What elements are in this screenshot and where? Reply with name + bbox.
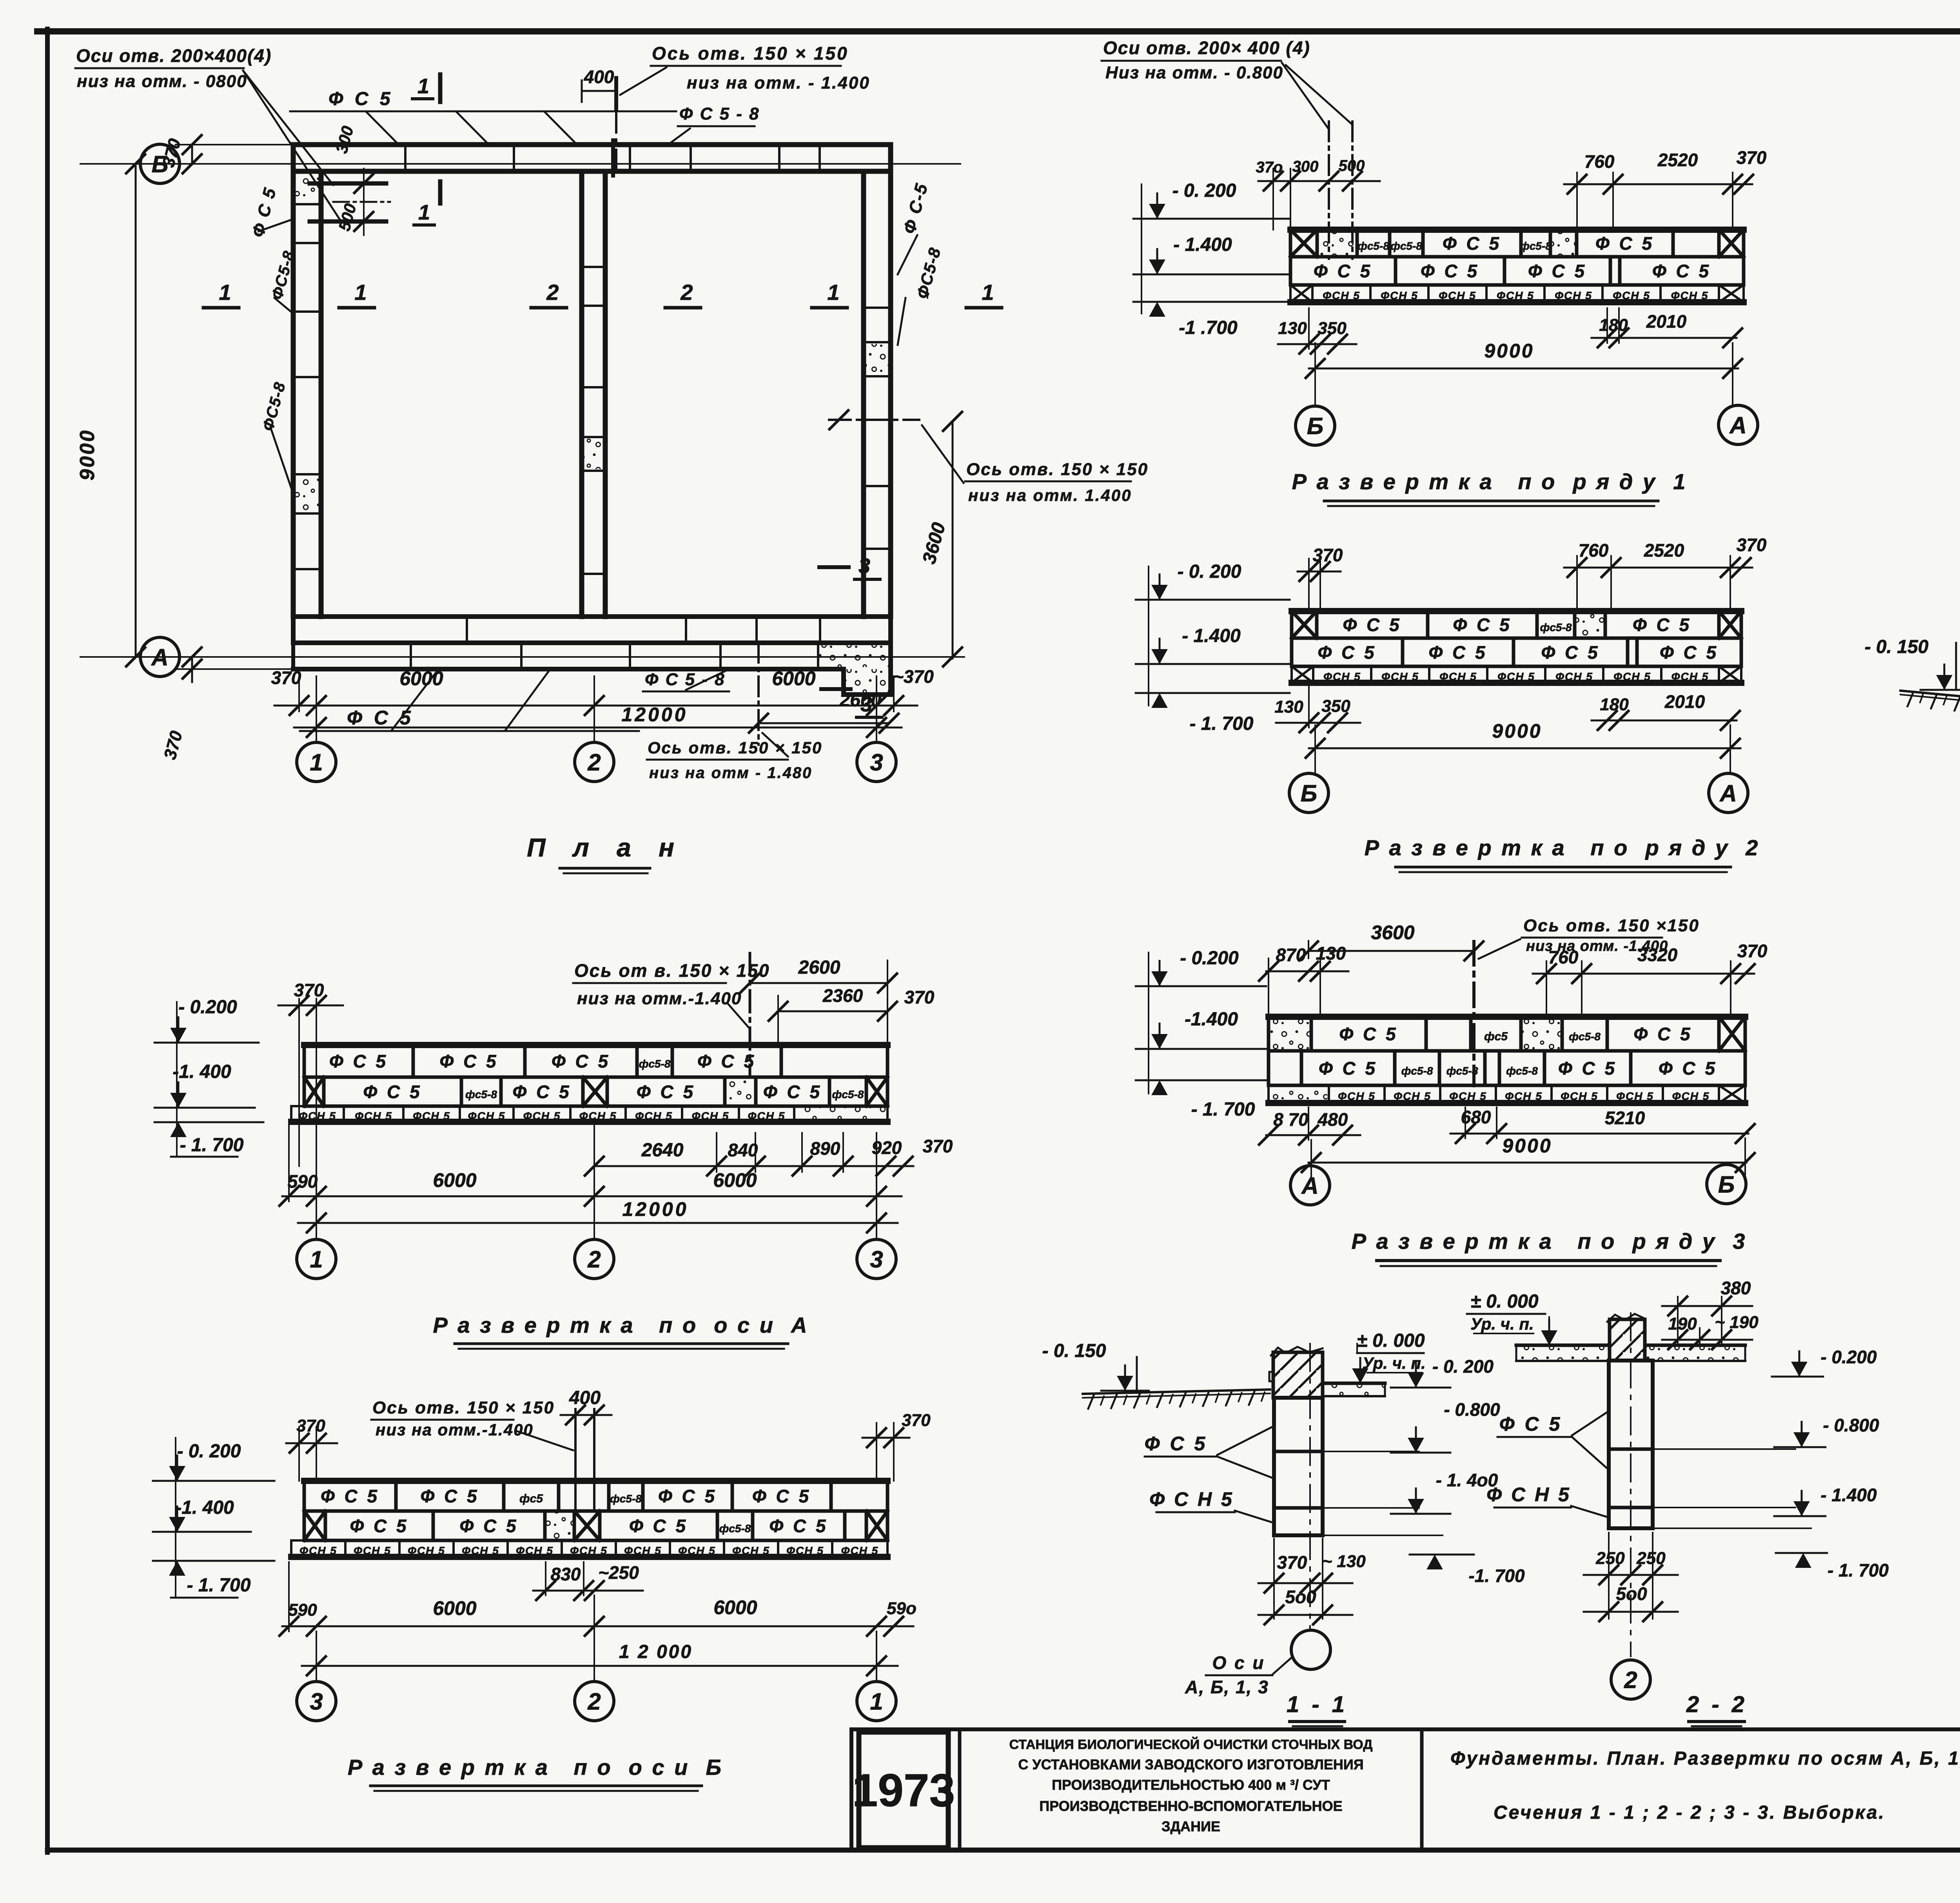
section 1-1 level -0.150 bbox=[1042, 1341, 1160, 1391]
svg-text:низ на отм.-1.400: низ на отм.-1.400 bbox=[577, 989, 742, 1008]
section 2-2 axis dash line bbox=[1630, 1313, 1632, 1656]
svg-text:3: 3 bbox=[310, 1689, 323, 1715]
svg-text:Р а з в е р т к а п о р я д: Р а з в е р т к а п о р я д у 2 bbox=[1365, 835, 1760, 860]
svg-text:370: 370 bbox=[1737, 535, 1767, 555]
svg-text:- 1.400: - 1.400 bbox=[1182, 626, 1241, 646]
svg-text:3600: 3600 bbox=[919, 520, 950, 566]
svg-text:180: 180 bbox=[1600, 695, 1629, 714]
svg-text:Ф С 5: Ф С 5 bbox=[248, 185, 280, 239]
svg-text:Ф С 5: Ф С 5 bbox=[439, 1051, 498, 1072]
svg-text:Б: Б bbox=[1307, 413, 1323, 439]
svg-text:А: А bbox=[151, 644, 168, 671]
elevation ryad 1 strip bbox=[1290, 230, 1744, 302]
section 2-2 wall bbox=[1607, 1314, 1645, 1361]
svg-text:Ф С 5: Ф С 5 bbox=[1319, 1058, 1377, 1079]
svg-text:Ось отв. 150 × 150: Ось отв. 150 × 150 bbox=[372, 1398, 555, 1417]
section 3-3 level -0.150 bbox=[1863, 637, 1960, 690]
svg-text:- 0.200: - 0.200 bbox=[178, 997, 237, 1018]
section 2-2 axis bubble bbox=[1611, 1660, 1650, 1699]
svg-text:Ф С 5: Ф С 5 bbox=[1659, 1058, 1717, 1079]
elevation ryad 3 axis bubbles bbox=[1290, 1165, 1746, 1205]
svg-text:2010: 2010 bbox=[1664, 691, 1705, 712]
svg-text:1: 1 bbox=[417, 74, 429, 98]
svg-text:3: 3 bbox=[858, 554, 870, 578]
svg-text:Ур. ч. п.: Ур. ч. п. bbox=[1470, 1315, 1534, 1333]
svg-text:760: 760 bbox=[1584, 151, 1615, 172]
svg-text:760: 760 bbox=[1548, 947, 1579, 967]
plan opening axis 400 at axis2 bbox=[582, 67, 616, 176]
svg-text:Р а з в е р т к а п о о с и: Р а з в е р т к а п о о с и А bbox=[433, 1313, 809, 1337]
svg-text:Б: Б bbox=[1718, 1172, 1735, 1198]
svg-text:760: 760 bbox=[1579, 540, 1609, 561]
svg-text:2: 2 bbox=[587, 749, 601, 776]
section 2-2 title bbox=[1686, 1692, 1748, 1726]
svg-text:ПРОИЗВОДСТВЕННО-ВСПОМОГАТЕЛЬНО: ПРОИЗВОДСТВЕННО-ВСПОМОГАТЕЛЬНОЕ bbox=[1039, 1798, 1342, 1814]
section 2-2 label FSN5 bbox=[1486, 1484, 1610, 1518]
elevation ryad 3 levels bbox=[1136, 948, 1266, 1120]
elevation ryad 3 strip bbox=[1269, 1017, 1745, 1103]
svg-text:Ф С 5: Ф С 5 bbox=[1314, 261, 1372, 281]
elevation osi A title bbox=[433, 1313, 809, 1349]
elevation osi A dim 370 left bbox=[278, 980, 343, 1166]
svg-text:фс5-8: фс5-8 bbox=[1520, 240, 1552, 252]
svg-text:3: 3 bbox=[870, 749, 883, 776]
svg-text:370: 370 bbox=[1737, 941, 1768, 961]
svg-text:Ф С 5: Ф С 5 bbox=[1421, 261, 1479, 281]
svg-text:Ф С 5: Ф С 5 bbox=[1652, 261, 1711, 281]
svg-text:2: 2 bbox=[546, 280, 559, 305]
svg-text:А: А bbox=[1301, 1173, 1318, 1199]
svg-text:Ось отв. 150 ×150: Ось отв. 150 ×150 bbox=[1523, 916, 1700, 935]
svg-text:низ на отм - 1.480: низ на отм - 1.480 bbox=[649, 764, 812, 782]
svg-text:12000: 12000 bbox=[621, 704, 688, 726]
svg-text:СТАНЦИЯ БИОЛОГИЧЕСКОЙ ОЧИСТКИ: СТАНЦИЯ БИОЛОГИЧЕСКОЙ ОЧИСТКИ СТОЧНЫХ ВО… bbox=[1009, 1737, 1372, 1752]
svg-text:Ф С 5: Ф С 5 bbox=[763, 1082, 822, 1102]
svg-text:Сечения 1 - 1 ; 2 - 2 ;: Сечения 1 - 1 ; 2 - 2 ; 3 - 3. Выборка. bbox=[1494, 1802, 1886, 1823]
svg-text:фс5-8: фс5-8 bbox=[1401, 1065, 1433, 1077]
svg-text:1 2 000: 1 2 000 bbox=[619, 1642, 693, 1662]
svg-text:- 1. 700: - 1. 700 bbox=[1191, 1099, 1255, 1120]
svg-text:фс5-8: фс5-8 bbox=[719, 1522, 751, 1535]
svg-text:1: 1 bbox=[219, 280, 231, 305]
svg-text:ПРОИЗВОДИТЕЛЬНОСТЬЮ 400 м ³/ С: ПРОИЗВОДИТЕЛЬНОСТЬЮ 400 м ³/ СУТ bbox=[1052, 1777, 1330, 1793]
plan axis bubbles 1 2 3 bbox=[297, 742, 896, 782]
svg-text:5о0: 5о0 bbox=[1616, 1584, 1647, 1604]
elevation ryad 3 dim 3600 and otv axis bbox=[1299, 922, 1483, 1086]
plan axis bubble B bbox=[140, 144, 180, 183]
svg-text:Ф С 5: Ф С 5 bbox=[347, 707, 414, 729]
svg-text:6000: 6000 bbox=[433, 1169, 476, 1191]
svg-text:Ось от в. 150 × 150: Ось от в. 150 × 150 bbox=[574, 960, 770, 981]
svg-text:9000: 9000 bbox=[76, 429, 99, 481]
svg-text:59о: 59о bbox=[887, 1599, 916, 1618]
svg-text:-1. 400: -1. 400 bbox=[175, 1497, 234, 1518]
svg-text:- 0.200: - 0.200 bbox=[1820, 1347, 1877, 1367]
elevation osi B title bbox=[348, 1755, 723, 1791]
svg-text:2600: 2600 bbox=[798, 957, 840, 978]
svg-text:Ось отв. 150 × 150: Ось отв. 150 × 150 bbox=[648, 738, 822, 757]
elevation osi A axis bubbles bbox=[297, 1239, 896, 1279]
elevation ryad 1 axis bubbles bbox=[1296, 405, 1758, 445]
elevation osi A dim 590 6000 6000 bbox=[279, 1125, 902, 1206]
section 1-1 dims below bbox=[1258, 1538, 1366, 1624]
svg-text:Ф С 5: Ф С 5 bbox=[769, 1516, 828, 1536]
svg-text:Б: Б bbox=[1301, 780, 1317, 807]
svg-text:- 1. 700: - 1. 700 bbox=[1190, 713, 1254, 734]
svg-text:фс5-8: фс5-8 bbox=[639, 1058, 671, 1070]
plan note axis otv 150x150 top bbox=[620, 43, 870, 95]
plan bottom dim row 370 6000 6000 370 bbox=[271, 666, 934, 715]
svg-text:Ф С 5: Ф С 5 bbox=[1453, 615, 1512, 635]
svg-text:Ф С 5: Ф С 5 bbox=[1499, 1413, 1563, 1435]
elevation ryad 1 opening axes bbox=[1329, 122, 1352, 259]
svg-text:9000: 9000 bbox=[1502, 1135, 1552, 1157]
svg-text:Ф С 5: Ф С 5 bbox=[1528, 261, 1587, 281]
svg-text:Ф С 5: Ф С 5 bbox=[1443, 233, 1501, 254]
svg-text:Оси отв. 200× 400 (4): Оси отв. 200× 400 (4) bbox=[1103, 38, 1310, 58]
svg-text:Ф С 5: Ф С 5 bbox=[552, 1051, 610, 1072]
svg-text:фс5-8: фс5-8 bbox=[1506, 1065, 1538, 1077]
plan rotated labels left bbox=[248, 185, 298, 494]
svg-text:- 0. 200: - 0. 200 bbox=[1178, 561, 1241, 582]
svg-text:130: 130 bbox=[1278, 319, 1307, 338]
svg-text:Ф С Н 5: Ф С Н 5 bbox=[1486, 1484, 1571, 1506]
section 1-1 axis dash line bbox=[1309, 1344, 1311, 1630]
svg-text:370: 370 bbox=[1737, 147, 1767, 168]
elevation ryad 1 dims top right 760 2520 370 bbox=[1564, 147, 1767, 230]
svg-text:2: 2 bbox=[1624, 1667, 1637, 1693]
plan left dims 370 bbox=[159, 135, 298, 762]
plan dim 3600 right bbox=[919, 412, 962, 666]
svg-text:-1. 400: -1. 400 bbox=[172, 1061, 231, 1082]
svg-text:- 1.400: - 1.400 bbox=[1820, 1485, 1877, 1505]
svg-text:Ф С 5: Ф С 5 bbox=[1633, 1024, 1692, 1044]
plan note axes 200x400 bbox=[75, 45, 342, 223]
svg-text:2: 2 bbox=[587, 1689, 601, 1715]
svg-text:2640: 2640 bbox=[641, 1140, 684, 1161]
elevation ryad 2 title bbox=[1365, 835, 1760, 872]
svg-text:370: 370 bbox=[1277, 1552, 1307, 1573]
svg-text:2360: 2360 bbox=[822, 985, 863, 1006]
svg-text:Р а з в е р т к а п о р я д: Р а з в е р т к а п о р я д у 3 bbox=[1352, 1229, 1747, 1254]
elevation ryad 2 levels bbox=[1136, 561, 1290, 734]
svg-text:- 0. 200: - 0. 200 bbox=[177, 1441, 241, 1462]
svg-text:2520: 2520 bbox=[1644, 540, 1684, 561]
svg-text:Ф С-5: Ф С-5 bbox=[900, 181, 932, 236]
plan section marks row bbox=[203, 280, 1002, 308]
plan dim 12000 bbox=[294, 704, 902, 742]
svg-text:Р а з в е р т к а п о о с и: Р а з в е р т к а п о о с и Б bbox=[348, 1755, 723, 1780]
elevation osi B levels bbox=[153, 1438, 274, 1598]
elevation osi B dim 12000 bbox=[302, 1595, 898, 1682]
elevation osi B dim 830 250 bbox=[533, 1562, 643, 1600]
svg-text:870: 870 bbox=[1276, 945, 1306, 965]
svg-text:Ф С 5: Ф С 5 bbox=[350, 1516, 408, 1536]
plan label FS5 top bbox=[290, 89, 676, 145]
elevation osi A dims 2640 840 890 920 370 bbox=[585, 1133, 953, 1176]
svg-text:низ на отм. 1.400: низ на отм. 1.400 bbox=[968, 486, 1132, 504]
note osi otv ryad 3 bbox=[1479, 916, 1700, 959]
elevation ryad 1 title bbox=[1292, 469, 1688, 506]
elevation ryad 3 dim 9000 bbox=[1302, 1135, 1755, 1181]
svg-text:О с и: О с и bbox=[1212, 1653, 1265, 1673]
svg-text:Ф С 5: Ф С 5 bbox=[420, 1486, 479, 1506]
svg-text:фс5: фс5 bbox=[519, 1492, 543, 1505]
svg-text:5210: 5210 bbox=[1605, 1108, 1645, 1128]
elevation ryad 1 dim 9000 bbox=[1306, 340, 1742, 406]
svg-text:9000: 9000 bbox=[1484, 340, 1534, 362]
svg-text:300: 300 bbox=[332, 124, 357, 155]
plan middle wall bbox=[582, 171, 605, 617]
elevation ryad 1 dims below bbox=[1278, 308, 1742, 354]
svg-text:300: 300 bbox=[1292, 158, 1319, 175]
svg-text:Ф С 5: Ф С 5 bbox=[363, 1082, 422, 1102]
svg-text:П л а н: П л а н bbox=[527, 833, 684, 862]
svg-text:Ф С 5: Ф С 5 bbox=[1660, 642, 1719, 663]
section 2-2 floor slabs bbox=[1516, 1345, 1745, 1361]
svg-text:Ф С 5: Ф С 5 bbox=[1428, 642, 1487, 663]
svg-text:130: 130 bbox=[1274, 697, 1303, 717]
elevation osi A note otv bbox=[573, 953, 770, 1074]
svg-text:Ф С Н 5: Ф С Н 5 bbox=[1149, 1488, 1234, 1510]
svg-text:590: 590 bbox=[288, 1171, 318, 1192]
svg-text:Ось отв. 150 × 150: Ось отв. 150 × 150 bbox=[652, 43, 849, 63]
svg-text:1: 1 bbox=[827, 280, 839, 305]
svg-text:Низ на отм. - 0.800: Низ на отм. - 0.800 bbox=[1105, 63, 1283, 82]
svg-text:Ф С 5: Ф С 5 bbox=[328, 89, 394, 109]
svg-text:Ф С 5: Ф С 5 bbox=[1339, 1024, 1398, 1044]
svg-text:370: 370 bbox=[271, 668, 301, 688]
svg-text:Ф С 5: Ф С 5 bbox=[697, 1051, 756, 1072]
svg-text:фс5-8: фс5-8 bbox=[1390, 240, 1422, 252]
svg-text:фс5-8: фс5-8 bbox=[1357, 240, 1389, 252]
svg-text:низ на отм. - 1.400: низ на отм. - 1.400 bbox=[687, 73, 870, 93]
section 1-1 label Osi bbox=[1185, 1653, 1293, 1697]
svg-text:низ на отм.-1.400: низ на отм.-1.400 bbox=[376, 1420, 534, 1439]
svg-text:2520: 2520 bbox=[1657, 150, 1698, 170]
svg-text:590: 590 bbox=[288, 1600, 317, 1620]
svg-text:370: 370 bbox=[160, 729, 186, 762]
svg-text:Ф С 5: Ф С 5 bbox=[1595, 233, 1654, 254]
svg-text:- 1. 700: - 1. 700 bbox=[1828, 1560, 1889, 1580]
plan top wall band bbox=[293, 145, 891, 171]
svg-text:± 0. 000: ± 0. 000 bbox=[1470, 1291, 1538, 1312]
section 1-1 label FSN5 bbox=[1149, 1488, 1275, 1523]
plan label FS5-8 top bbox=[666, 104, 760, 146]
svg-text:Ф С 5 - 8: Ф С 5 - 8 bbox=[679, 104, 760, 123]
plan note axis otv bottom bbox=[647, 643, 822, 782]
svg-text:Ф С 5: Ф С 5 bbox=[658, 1486, 717, 1506]
elevation ryad 1 levels bbox=[1133, 180, 1290, 338]
svg-text:фс5-8: фс5-8 bbox=[1569, 1030, 1601, 1043]
svg-text:1 - 1: 1 - 1 bbox=[1287, 1692, 1348, 1717]
plan title bbox=[527, 833, 684, 873]
svg-text:А, Б, 1, 3: А, Б, 1, 3 bbox=[1185, 1677, 1269, 1697]
svg-text:± 0. 000: ± 0. 000 bbox=[1357, 1330, 1425, 1351]
svg-text:890: 890 bbox=[810, 1138, 840, 1159]
section 1-1 label FS5 bbox=[1145, 1426, 1274, 1478]
elevation ryad 2 dims top bbox=[1298, 535, 1767, 611]
section 2-2 dims below bbox=[1584, 1533, 1678, 1621]
elevation osi B axis bubbles bbox=[297, 1682, 896, 1721]
svg-text:Ф С 5: Ф С 5 bbox=[512, 1082, 571, 1102]
plan axis line B bbox=[80, 163, 960, 165]
svg-text:Р а з в е р т к а п о р я д: Р а з в е р т к а п о р я д у 1 bbox=[1292, 469, 1688, 494]
svg-text:Ф С 5: Ф С 5 bbox=[1541, 642, 1600, 663]
section 2-2 mark 0.000 bbox=[1467, 1291, 1573, 1345]
svg-text:~370: ~370 bbox=[893, 666, 934, 687]
note osi otv 200x400 ryad 1 bbox=[1102, 38, 1352, 129]
elevation osi A dim 12000 bbox=[298, 1121, 898, 1239]
svg-text:6000: 6000 bbox=[713, 1169, 757, 1191]
svg-text:1973: 1973 bbox=[852, 1765, 955, 1816]
section 1-1 right levels bbox=[1323, 1356, 1525, 1586]
svg-text:370: 370 bbox=[902, 1411, 931, 1430]
svg-text:- 0. 200: - 0. 200 bbox=[1172, 180, 1236, 201]
plan section cut 1 top bbox=[412, 74, 440, 225]
svg-text:1: 1 bbox=[354, 280, 367, 305]
svg-text:190: 190 bbox=[1668, 1314, 1697, 1333]
svg-text:12000: 12000 bbox=[622, 1198, 688, 1220]
svg-text:6000: 6000 bbox=[399, 668, 443, 689]
section 2-2 label FS5 bbox=[1497, 1411, 1609, 1470]
svg-text:Ось отв. 150 × 150: Ось отв. 150 × 150 bbox=[966, 460, 1149, 479]
svg-text:Ф С 5: Ф С 5 bbox=[1558, 1058, 1617, 1079]
svg-text:Оси отв. 200×400(4): Оси отв. 200×400(4) bbox=[76, 45, 272, 66]
svg-text:ЗДАНИЕ: ЗДАНИЕ bbox=[1161, 1818, 1220, 1834]
svg-text:2 - 2: 2 - 2 bbox=[1686, 1692, 1748, 1717]
title block frame bbox=[851, 1729, 1960, 1850]
svg-text:низ на отм. - 0800: низ на отм. - 0800 bbox=[77, 72, 247, 91]
svg-text:- 0.800: - 0.800 bbox=[1444, 1399, 1500, 1420]
elevation ryad 2 strip bbox=[1292, 611, 1741, 683]
svg-text:400: 400 bbox=[584, 67, 614, 87]
elevation osi A dims 2600 2360 bbox=[740, 957, 935, 1044]
plan dim 300 500 rotated bbox=[332, 124, 373, 235]
section 2-2 dims top bbox=[1662, 1278, 1759, 1349]
svg-text:250: 250 bbox=[1595, 1549, 1625, 1568]
svg-text:фс5-8: фс5-8 bbox=[832, 1088, 864, 1101]
title block main title bbox=[1450, 1748, 1960, 1823]
svg-text:5о0: 5о0 bbox=[1285, 1587, 1316, 1607]
section 3-3 ground line bbox=[1900, 691, 1960, 721]
svg-text:фс5-8: фс5-8 bbox=[1540, 621, 1572, 633]
elevation osi B note otv 400 bbox=[371, 1388, 612, 1511]
section 1-1 ground line bbox=[1083, 1390, 1270, 1409]
svg-text:2010: 2010 bbox=[1646, 311, 1687, 332]
svg-text:С УСТАНОВКАМИ ЗАВОДСКОГО ИЗГОТ: С УСТАНОВКАМИ ЗАВОДСКОГО ИЗГОТОВЛЕНИЯ bbox=[1018, 1756, 1363, 1772]
svg-text:380: 380 bbox=[1721, 1278, 1751, 1298]
svg-text:Ф С 5: Ф С 5 bbox=[629, 1516, 688, 1536]
elevation ryad 3 title bbox=[1352, 1229, 1747, 1266]
elevation ryad 2 dims below bbox=[1274, 686, 1740, 732]
plan right wall bbox=[864, 171, 891, 617]
section 2-2 right levels bbox=[1653, 1347, 1889, 1580]
svg-text:фс5-8: фс5-8 bbox=[610, 1493, 642, 1505]
plan label FS5 bottom bbox=[300, 671, 639, 731]
svg-text:2: 2 bbox=[680, 280, 693, 305]
svg-text:А: А bbox=[1729, 412, 1746, 439]
svg-text:- 0. 150: - 0. 150 bbox=[1042, 1341, 1106, 1361]
plan section 3 marks bbox=[819, 554, 882, 717]
plan dashdot line right wall bbox=[829, 410, 919, 429]
elevation osi B dim 590 6000 6000 590 bbox=[279, 1562, 916, 1636]
section 1-1 wall bbox=[1269, 1347, 1323, 1398]
svg-text:370: 370 bbox=[296, 1416, 325, 1435]
svg-text:37о: 37о bbox=[1256, 159, 1283, 176]
svg-text:Ф С 5: Ф С 5 bbox=[637, 1082, 695, 1102]
plan rotated labels right bbox=[898, 181, 944, 345]
section 1-1 floor slab bbox=[1323, 1383, 1385, 1396]
svg-text:1: 1 bbox=[418, 201, 430, 224]
svg-text:350: 350 bbox=[1318, 319, 1347, 338]
svg-text:2: 2 bbox=[587, 1246, 601, 1273]
svg-text:Ф С 5 - 8: Ф С 5 - 8 bbox=[645, 670, 726, 689]
elevation ryad 3 dims below bbox=[1259, 1107, 1755, 1145]
title block description bbox=[1009, 1737, 1372, 1834]
svg-text:1: 1 bbox=[982, 280, 994, 305]
plan label FS5-8 bottom bbox=[643, 670, 729, 691]
svg-text:~250: ~250 bbox=[598, 1562, 639, 1583]
svg-text:-1. 700: -1. 700 bbox=[1468, 1566, 1525, 1586]
title block year 1973 bbox=[852, 1732, 955, 1848]
svg-text:- 0. 150: - 0. 150 bbox=[1865, 637, 1929, 657]
svg-text:А: А bbox=[1719, 780, 1737, 807]
svg-text:370: 370 bbox=[923, 1136, 953, 1156]
plan axis line A bbox=[80, 656, 964, 658]
section 1-1 mark 0.000 bbox=[1336, 1330, 1426, 1383]
elevation osi A strip bbox=[291, 1045, 887, 1122]
svg-text:Ф С 5: Ф С 5 bbox=[1318, 642, 1376, 663]
plan note axis otv right bbox=[922, 425, 1149, 504]
plan opening ticks top-left bbox=[310, 183, 390, 221]
plan left dim 9000 bbox=[76, 154, 145, 666]
svg-text:6000: 6000 bbox=[433, 1597, 476, 1619]
svg-text:~ 130: ~ 130 bbox=[1322, 1552, 1366, 1571]
svg-text:3600: 3600 bbox=[1371, 922, 1414, 943]
section 1-1 axis bubble bbox=[1291, 1630, 1330, 1669]
svg-text:- 1. 700: - 1. 700 bbox=[180, 1135, 244, 1156]
svg-text:1: 1 bbox=[310, 1246, 323, 1273]
svg-text:Фундаменты. План. Развертк: Фундаменты. План. Развертки по осям А, Б… bbox=[1450, 1748, 1960, 1769]
elevation osi B strip bbox=[291, 1481, 887, 1557]
svg-text:3: 3 bbox=[870, 1246, 883, 1273]
svg-text:Ф С 5: Ф С 5 bbox=[1145, 1433, 1208, 1455]
svg-text:-1 .700: -1 .700 bbox=[1179, 317, 1238, 338]
elevation ryad 2 axis bubbles bbox=[1289, 773, 1748, 813]
svg-text:- 0. 200: - 0. 200 bbox=[1432, 1356, 1494, 1377]
svg-text:фс5-8: фс5-8 bbox=[465, 1088, 497, 1101]
plan axis bubble A bbox=[140, 637, 180, 677]
svg-text:370: 370 bbox=[904, 987, 935, 1007]
section 1-1 title bbox=[1287, 1692, 1348, 1726]
svg-text:3320: 3320 bbox=[1637, 945, 1678, 965]
svg-text:Ф С 5: Ф С 5 bbox=[752, 1486, 811, 1506]
plan foundation band with notch bbox=[293, 643, 891, 695]
plan bottom wall band bbox=[293, 617, 891, 643]
svg-text:- 1. 700: - 1. 700 bbox=[187, 1575, 251, 1596]
svg-text:- 0.800: - 0.800 bbox=[1823, 1415, 1879, 1435]
svg-text:фс5: фс5 bbox=[1484, 1030, 1508, 1043]
plan dim 2600 bbox=[749, 690, 898, 733]
elevation ryad 1 dims top left 370 300 500 bbox=[1256, 157, 1380, 230]
svg-text:6000: 6000 bbox=[772, 668, 815, 689]
svg-text:Ф С 5: Ф С 5 bbox=[321, 1486, 379, 1506]
svg-text:Ф С 5: Ф С 5 bbox=[329, 1051, 388, 1072]
elevation osi A levels bbox=[154, 997, 263, 1157]
svg-text:480: 480 bbox=[1318, 1109, 1348, 1130]
elevation osi B dims 370 bbox=[286, 1411, 931, 1481]
